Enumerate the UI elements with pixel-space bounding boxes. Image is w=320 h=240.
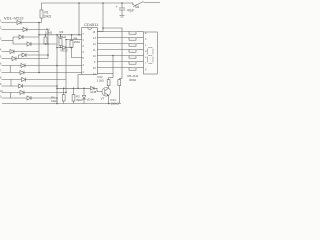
svg-text:300Ω: 300Ω	[129, 78, 137, 82]
wire row 11	[2, 97, 58, 99]
resistor R11	[129, 68, 136, 70]
wire seg b	[97, 37, 129, 39]
diode VD13a	[27, 96, 31, 100]
node row1-bus1	[38, 22, 40, 24]
diode VD11	[19, 84, 23, 88]
pin numbers left	[83, 33, 85, 74]
wire seg g	[97, 67, 129, 69]
svg-text:4: 4	[0, 49, 2, 52]
7-segment display LED box	[144, 32, 158, 74]
diode VD5	[10, 50, 14, 54]
wire row 1	[2, 22, 42, 24]
diode VD10	[22, 78, 26, 82]
node labels left edge	[0, 20, 3, 99]
diode VD15 4148	[91, 87, 95, 91]
svg-text:47μF: 47μF	[127, 9, 134, 13]
resistor R8	[129, 50, 136, 52]
svg-text:3: 3	[0, 38, 2, 41]
bus line 4	[65, 40, 67, 93]
svg-text:6: 6	[0, 63, 2, 66]
svg-text:R3: R3	[60, 30, 64, 34]
resistor R4	[70, 34, 81, 48]
svg-text:7: 7	[0, 70, 2, 73]
svg-text:1MΩ: 1MΩ	[74, 40, 81, 44]
pin numbers right	[93, 31, 97, 76]
wire collector	[108, 86, 110, 88]
op IC CD4511 body	[82, 22, 99, 75]
wire rail after switch to right edge	[144, 2, 161, 4]
wire top rail	[42, 2, 134, 4]
wire seg d	[97, 49, 129, 51]
svg-text:SA: SA	[135, 5, 140, 9]
resistor R12	[97, 75, 114, 86]
diode VD8	[21, 64, 25, 68]
svg-text:5: 5	[0, 56, 2, 59]
wire row 4	[2, 51, 40, 53]
wire row 3 stub and branch	[2, 40, 14, 42]
svg-text:2: 2	[0, 27, 2, 30]
wire row 2	[2, 29, 49, 31]
wire row 8	[2, 79, 67, 81]
diode VD3	[19, 35, 23, 39]
wire vcc branch right	[103, 28, 122, 79]
wire seg a	[97, 31, 129, 33]
svg-text:+: +	[116, 5, 118, 9]
wire row 7	[2, 72, 83, 74]
wire row 3a	[13, 36, 39, 38]
wire seg f	[97, 61, 129, 63]
segment letters	[145, 32, 147, 71]
svg-text:8: 8	[0, 77, 2, 80]
resistor R5	[129, 32, 136, 34]
wire row 9	[2, 85, 58, 87]
wire row 5a	[19, 54, 49, 56]
wire pin9	[97, 73, 113, 75]
svg-text:10kΩ: 10kΩ	[45, 31, 53, 35]
wire R4/VD13 node to IC pin5	[70, 48, 82, 58]
diode VD12	[20, 91, 24, 95]
resistor R7	[129, 44, 136, 46]
bus line 1	[38, 23, 40, 73]
svg-text:470kΩ: 470kΩ	[58, 35, 68, 39]
wire row 6	[2, 65, 83, 67]
diode VD7	[22, 53, 26, 57]
wire display driver vertical	[112, 56, 114, 78]
wire Vcc drop to BCD wire	[78, 3, 80, 35]
resistor R fl1	[62, 88, 65, 103]
wire base row	[57, 88, 103, 91]
wire VD13 row	[57, 47, 70, 49]
resistor R9	[129, 56, 136, 58]
wire fanout row8-row9	[10, 80, 12, 87]
svg-text:1: 1	[0, 20, 2, 23]
wire IC pin16 to rail	[97, 3, 103, 32]
svg-text:VT: VT	[101, 97, 105, 101]
resistor R fl2	[72, 88, 83, 103]
svg-text:VD13: VD13	[60, 49, 68, 53]
svg-text:VD14: VD14	[87, 98, 94, 102]
resistor R2	[44, 28, 53, 45]
svg-text:VD1~VD12: VD1~VD12	[4, 15, 24, 20]
wire emitter to gnd	[108, 96, 110, 104]
diode VD14 vertical	[82, 88, 94, 103]
wire bus4 to IC	[66, 39, 82, 41]
wire ground rail	[2, 103, 121, 105]
svg-text:10kΩ: 10kΩ	[51, 99, 58, 103]
transistor VT	[101, 88, 111, 101]
svg-text:1.2kΩ: 1.2kΩ	[97, 78, 104, 82]
7-segment digit	[148, 48, 153, 64]
svg-text:39kΩ: 39kΩ	[76, 98, 83, 102]
bus line 3	[56, 35, 58, 104]
wire seg e	[97, 55, 129, 57]
wire fanout row10-row11	[10, 93, 12, 99]
resistor R1	[40, 3, 52, 23]
switch SA	[132, 2, 143, 9]
wire row 3b	[13, 43, 57, 45]
svg-text:10kΩ: 10kΩ	[44, 15, 52, 19]
resistor R3	[58, 30, 68, 48]
capacitor C 47uF	[116, 2, 135, 17]
svg-text:4148: 4148	[90, 90, 97, 94]
diode VD1	[17, 21, 21, 25]
wire row 5 and branch	[2, 58, 49, 60]
resistor R13	[111, 79, 123, 106]
bus line 2	[47, 30, 49, 59]
resistor R10	[129, 62, 136, 64]
svg-text:CD4511: CD4511	[84, 22, 99, 27]
diode VD6	[12, 57, 16, 61]
wire row 10	[2, 92, 67, 94]
wire fanout row6-row7	[9, 66, 11, 73]
wire seg c	[97, 43, 129, 45]
diode VD13	[63, 46, 67, 50]
diode VD9	[20, 71, 24, 75]
resistor R6	[129, 38, 136, 40]
diode VD2	[23, 28, 27, 32]
wire IC gnd pin8 down	[78, 75, 82, 89]
wire bcd top to IC	[39, 34, 82, 36]
diode VD4	[27, 42, 31, 46]
